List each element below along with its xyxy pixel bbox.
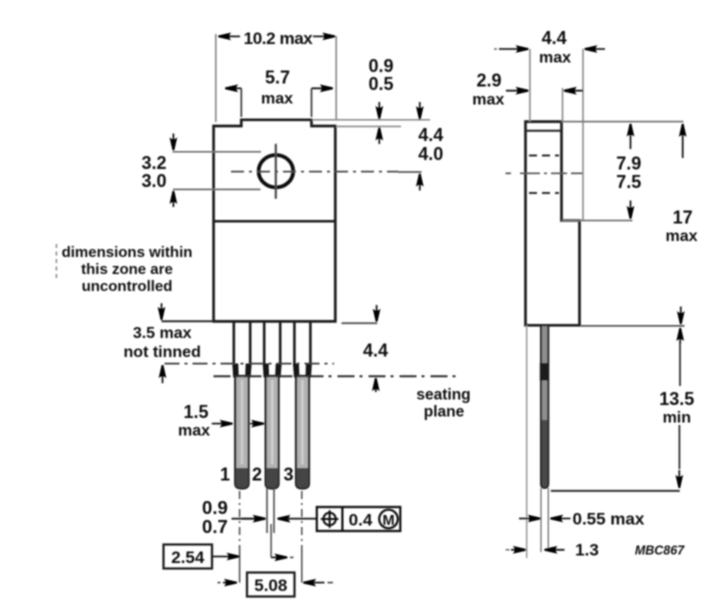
dim 4.4/4.0: upper arrow (down) <box>419 102 421 119</box>
dim 17 max: lower arrow (down) <box>680 307 682 324</box>
lead 2 wide portion <box>263 321 266 365</box>
svg-text:4.4: 4.4 <box>418 125 443 145</box>
dim 4.4: upper arrow (down) <box>376 305 378 321</box>
svg-text:dimensions within: dimensions within <box>62 244 193 261</box>
dim 0.55 max: right arrow <box>551 518 571 520</box>
dim 4.4 max side: right arrow <box>585 48 605 50</box>
dim 5.08: right arrow to lead 3 centre <box>304 582 314 584</box>
mounting hole <box>259 155 294 187</box>
dim 3.2/3.0: upper leader line <box>173 151 262 153</box>
dim 4.4 max side: extension lines up <box>529 49 531 122</box>
svg-text:M: M <box>382 513 394 529</box>
M-circle modifier <box>379 510 398 529</box>
dim box 5.08 <box>247 573 295 597</box>
dim 3.5 max not tinned: lower arrow (up) <box>162 365 164 383</box>
svg-text:3.2: 3.2 <box>141 153 166 173</box>
svg-text:7.5: 7.5 <box>616 172 641 192</box>
dim 4.4/4.0: lower arrow (up) <box>419 174 421 191</box>
svg-text:not tinned: not tinned <box>124 344 201 361</box>
dim 2.9 max side: tab-face extension line up <box>562 88 564 122</box>
dim 13.5 min: lower arrow (down) <box>678 425 680 469</box>
svg-text:max: max <box>261 91 293 108</box>
svg-text:3.5 max: 3.5 max <box>133 325 192 342</box>
svg-text:10.2 max: 10.2 max <box>244 29 314 48</box>
dim 4.4: lower arrow (up) <box>375 378 377 392</box>
lead 2 taper (tinning boundary) <box>263 364 269 378</box>
lead 1 narrow portion below seating plane <box>235 376 248 489</box>
svg-text:0.5: 0.5 <box>368 74 393 94</box>
dim 17 max: upper arrow (up) <box>682 124 684 158</box>
dash-dot line: seating plane <box>214 375 457 377</box>
dim 10.2 max: left extension line <box>215 34 217 122</box>
dim 4.4 max side: left arrow <box>494 48 497 50</box>
dim 7.9/7.5: top edge extension line <box>562 121 684 123</box>
dim 5.08: left arrow to lead 1 centre <box>218 582 221 584</box>
dim 3.2/3.0: lower leader line <box>173 188 261 190</box>
svg-text:0.9: 0.9 <box>368 56 393 76</box>
svg-text:this zone are: this zone are <box>81 261 173 278</box>
svg-text:max: max <box>472 92 504 109</box>
dim 2.54: leader arrow to lead 1 centre <box>212 556 239 558</box>
dash-dot line: not-tinned zone boundary <box>165 363 335 365</box>
lead 2 narrow portion below seating plane <box>266 376 279 489</box>
svg-text:min: min <box>663 410 691 427</box>
dim 1.5 max: right arrow <box>250 423 264 425</box>
dim 7.9/7.5: step extension line <box>562 220 633 222</box>
svg-text:13.5: 13.5 <box>659 389 694 409</box>
lead 3 taper (tinning boundary) <box>293 364 300 378</box>
true-position tolerance frame <box>317 507 401 531</box>
svg-text:0.7: 0.7 <box>202 516 228 537</box>
side view hole centre line (dash-dot) <box>506 172 512 174</box>
dim 2.9 max side: left arrow <box>506 90 528 92</box>
svg-text:5.08: 5.08 <box>254 576 287 595</box>
lead 2 tail lines below tip <box>266 488 268 533</box>
svg-text:3.0: 3.0 <box>141 171 166 191</box>
lead 2 centre line to 2.54 dim corner <box>270 524 272 557</box>
dim 13.5 min: lead-end line <box>551 490 680 492</box>
dim 0.9/0.5: shoulder-top extension line <box>336 125 401 127</box>
lead 3 wide portion <box>293 321 296 365</box>
svg-text:max: max <box>539 50 571 67</box>
svg-text:17: 17 <box>673 208 693 228</box>
svg-text:0.9: 0.9 <box>202 497 228 518</box>
dim 7.9/7.5: upper arrow (up) <box>630 124 632 149</box>
position symbol <box>323 513 335 525</box>
dim box 2.54 <box>164 545 213 569</box>
svg-text:max: max <box>665 228 697 245</box>
svg-text:4.4: 4.4 <box>542 28 567 48</box>
dim 17 max: body bottom extension line <box>581 325 685 327</box>
svg-text:max: max <box>178 423 210 440</box>
svg-text:uncontrolled: uncontrolled <box>82 278 173 295</box>
svg-text:MBC867: MBC867 <box>635 544 685 558</box>
svg-text:4.0: 4.0 <box>418 144 443 164</box>
dim 5.7 max: right corner stub and arrow <box>311 88 313 117</box>
lead 3 narrow portion below seating plane <box>296 376 309 489</box>
dim 10.2 max: right extension line <box>335 36 337 120</box>
svg-text:2.54: 2.54 <box>171 548 205 567</box>
svg-text:seating: seating <box>416 387 470 404</box>
lead 1 centre line below tip <box>239 491 241 548</box>
side view hidden hole lines (dashed) <box>529 155 559 157</box>
dim 3.2/3.0: lower arrow (up) <box>172 191 174 207</box>
side view body outline <box>526 122 580 326</box>
lead 1 wide portion <box>233 321 236 365</box>
hole horizontal centre line (dash-dot) <box>231 171 398 173</box>
dim 2.9 max side: right arrow <box>564 90 583 92</box>
side view body-face extension line down <box>526 325 528 558</box>
centre line solid right segment to 4.4/4.0 dim <box>398 171 422 173</box>
svg-text:1.5: 1.5 <box>183 402 208 422</box>
dim 10.2 max: right arrow <box>313 35 335 37</box>
svg-text:7.9: 7.9 <box>616 154 641 174</box>
svg-text:2: 2 <box>252 465 262 485</box>
zone bracket dashes <box>55 244 57 279</box>
hole vertical crosshair <box>275 144 277 199</box>
dim 0.9/0.5: lower arrow (up) <box>378 128 380 144</box>
svg-text:2.9: 2.9 <box>476 71 501 91</box>
side view top inner line <box>526 130 562 132</box>
dim 0.55 max: left arrow <box>519 518 540 520</box>
svg-text:4.4: 4.4 <box>363 341 388 361</box>
side view lead tail extension lines <box>540 488 542 552</box>
dim 1.3: right arrow <box>545 549 565 551</box>
svg-text:0.55 max: 0.55 max <box>573 510 645 529</box>
svg-text:1.3: 1.3 <box>575 541 599 560</box>
front view tab/body separator line <box>214 220 336 223</box>
dim 0.9/0.5: notch-top extension line <box>312 119 430 121</box>
dim 2.54: corner arrow from lead 2 centre <box>271 556 287 558</box>
svg-text:3: 3 <box>283 465 293 485</box>
svg-text:plane: plane <box>424 404 465 421</box>
front view body outline (10.2 wide, notched top) <box>214 120 336 322</box>
dim 5.7 max: left corner stub and arrow <box>240 88 242 117</box>
lead 1 taper (tinning boundary) <box>232 364 238 378</box>
dim 0.9/0.7: leader line and arrows to lead 2 tails <box>232 518 257 520</box>
dim 13.5 min: upper arrow (up) <box>679 328 681 344</box>
svg-text:1: 1 <box>220 465 230 485</box>
dim 1.3: left arrow <box>506 549 510 551</box>
side view lead seating-plane mark <box>540 363 549 381</box>
dim 3.5 max not tinned: upper arrow (down) and level line <box>161 303 163 319</box>
dim 3.2/3.0: upper arrow (down) <box>172 134 174 151</box>
svg-text:0.4: 0.4 <box>349 511 373 530</box>
dim 7.9/7.5: lower arrow (down) <box>630 201 632 219</box>
lead 3 centre line below tip <box>301 491 303 548</box>
dim 1.5 max: left arrow <box>212 423 233 425</box>
dim 0.9/0.5: upper arrow (down) <box>378 102 380 119</box>
side view lead <box>541 325 548 488</box>
svg-text:5.7: 5.7 <box>265 68 290 88</box>
dim 10.2 max: left arrow <box>219 35 241 37</box>
dim 4.4 (body bottom to seating plane): extension line <box>342 322 378 324</box>
